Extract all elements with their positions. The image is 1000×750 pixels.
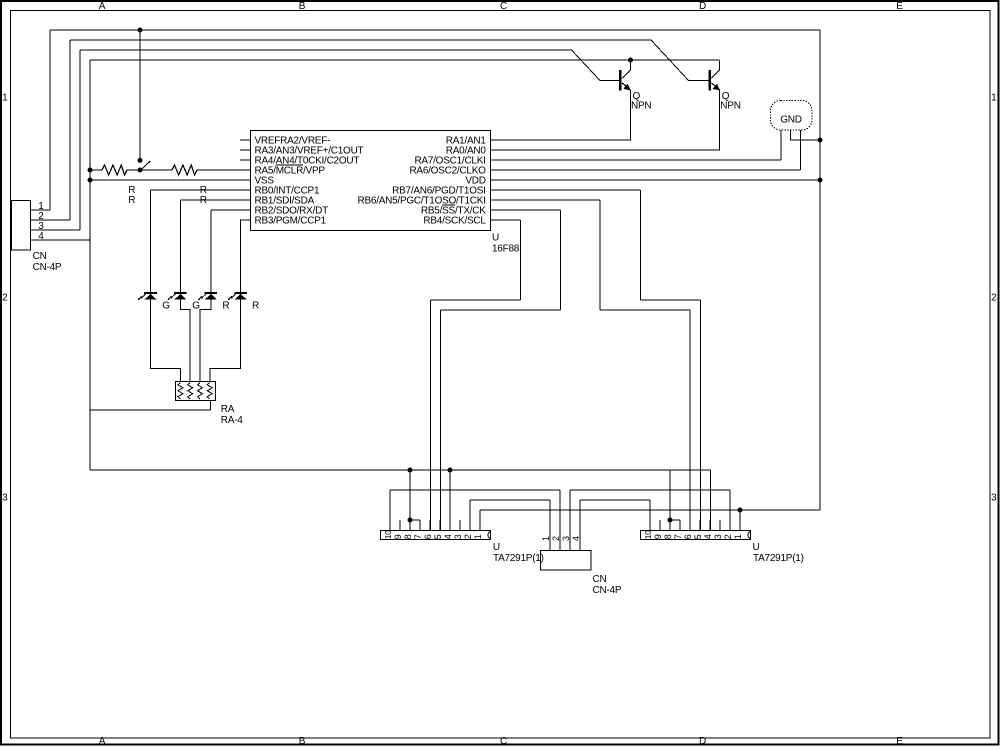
svg-text:R: R [222, 301, 229, 312]
svg-text:2: 2 [991, 293, 997, 304]
svg-text:G: G [162, 301, 170, 312]
svg-text:16F88: 16F88 [492, 243, 520, 254]
svg-text:E: E [896, 1, 903, 12]
svg-text:2: 2 [723, 534, 733, 539]
svg-text:C: C [500, 736, 507, 747]
svg-text:10: 10 [383, 530, 393, 539]
svg-text:4: 4 [703, 534, 713, 539]
svg-text:U: U [753, 542, 760, 553]
svg-text:1: 1 [541, 536, 551, 541]
svg-text:8: 8 [403, 534, 413, 539]
svg-text:NPN: NPN [720, 101, 740, 112]
svg-text:5: 5 [693, 534, 703, 539]
svg-text:E: E [896, 736, 903, 747]
svg-text:U: U [492, 233, 499, 244]
svg-text:5: 5 [433, 534, 443, 539]
svg-text:R: R [200, 195, 207, 206]
svg-text:RB3/PGM/CCP1: RB3/PGM/CCP1 [255, 216, 327, 227]
svg-text:2: 2 [2, 293, 8, 304]
svg-text:CN: CN [593, 574, 607, 585]
svg-text:CN-4P: CN-4P [593, 585, 622, 596]
svg-text:4: 4 [443, 534, 453, 539]
svg-text:9: 9 [393, 534, 403, 539]
svg-text:3: 3 [2, 493, 8, 504]
svg-text:RB4/SCK/SCL: RB4/SCK/SCL [423, 216, 486, 227]
svg-text:3: 3 [561, 536, 571, 541]
svg-text:GND: GND [780, 114, 802, 125]
svg-text:1: 1 [991, 93, 997, 104]
svg-text:2: 2 [463, 534, 473, 539]
svg-text:TA7291P(1): TA7291P(1) [753, 553, 804, 564]
svg-text:CN-4P: CN-4P [33, 262, 62, 273]
svg-text:2: 2 [551, 536, 561, 541]
svg-text:TA7291P(1): TA7291P(1) [493, 553, 544, 564]
svg-text:6: 6 [683, 534, 693, 539]
svg-text:3: 3 [453, 534, 463, 539]
svg-text:7: 7 [673, 534, 683, 539]
svg-text:4: 4 [571, 536, 581, 541]
svg-text:D: D [699, 1, 706, 12]
svg-text:B: B [299, 736, 306, 747]
svg-text:A: A [99, 736, 106, 747]
svg-text:B: B [299, 1, 306, 12]
svg-text:A: A [99, 1, 106, 12]
svg-text:RA-4: RA-4 [221, 415, 243, 426]
svg-text:C: C [500, 1, 507, 12]
svg-text:10: 10 [643, 530, 653, 539]
svg-text:8: 8 [663, 534, 673, 539]
svg-text:NPN: NPN [631, 101, 651, 112]
svg-text:6: 6 [423, 534, 433, 539]
svg-text:3: 3 [713, 534, 723, 539]
svg-text:3: 3 [991, 493, 997, 504]
svg-text:D: D [699, 736, 706, 747]
svg-text:1: 1 [2, 93, 8, 104]
svg-text:RA: RA [221, 404, 235, 415]
svg-text:U: U [493, 542, 500, 553]
svg-text:R: R [128, 195, 135, 206]
svg-text:R: R [252, 301, 259, 312]
svg-text:4: 4 [38, 231, 44, 242]
svg-text:1: 1 [733, 534, 743, 539]
svg-text:7: 7 [413, 534, 423, 539]
svg-text:9: 9 [653, 534, 663, 539]
svg-text:CN: CN [33, 251, 47, 262]
svg-text:1: 1 [473, 534, 483, 539]
svg-text:G: G [192, 301, 200, 312]
